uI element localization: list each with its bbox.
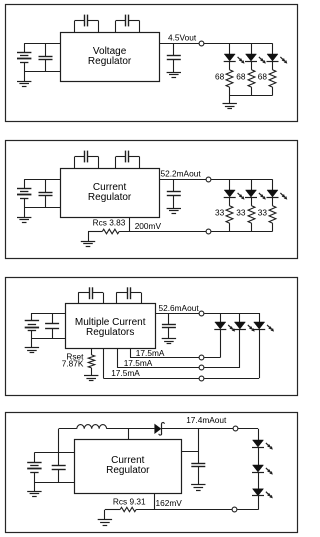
svg-text:52.2mAout: 52.2mAout <box>161 169 202 179</box>
svg-text:162mV: 162mV <box>156 498 183 508</box>
svg-text:68: 68 <box>258 72 268 82</box>
svg-text:68: 68 <box>215 72 225 82</box>
svg-text:7.87K: 7.87K <box>62 358 84 368</box>
svg-text:17.5mA: 17.5mA <box>136 348 165 358</box>
svg-text:17.5mA: 17.5mA <box>111 368 140 378</box>
svg-text:Rcs 3.83: Rcs 3.83 <box>93 218 126 228</box>
svg-text:Regulator: Regulator <box>88 56 132 67</box>
svg-text:68: 68 <box>236 72 246 82</box>
svg-text:17.5mA: 17.5mA <box>124 358 153 368</box>
svg-text:Regulator: Regulator <box>106 465 150 476</box>
svg-text:17.4mAout: 17.4mAout <box>186 415 227 425</box>
svg-text:Rcs 9.31: Rcs 9.31 <box>113 497 146 507</box>
svg-text:4.5Vout: 4.5Vout <box>168 33 197 43</box>
svg-text:33: 33 <box>258 208 268 218</box>
svg-text:Regulators: Regulators <box>86 327 134 338</box>
svg-text:200mV: 200mV <box>135 221 162 231</box>
svg-text:Regulator: Regulator <box>88 192 132 203</box>
svg-text:52.6mAout: 52.6mAout <box>159 303 200 313</box>
svg-text:Current: Current <box>111 455 145 466</box>
svg-text:33: 33 <box>236 208 246 218</box>
svg-text:33: 33 <box>215 208 225 218</box>
